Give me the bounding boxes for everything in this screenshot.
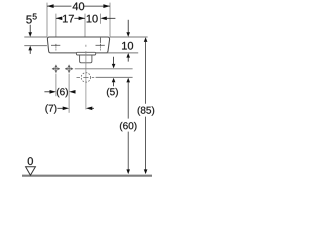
dimension 10 (right) up arrow xyxy=(126,53,130,62)
fixing hole extension line right xyxy=(68,74,70,113)
tap hole left cross xyxy=(51,44,60,51)
extension line left (x=47) xyxy=(46,3,48,37)
dimension (60) line xyxy=(126,78,130,174)
fixing marker right xyxy=(65,65,73,73)
dimension (6) arrows xyxy=(44,90,75,94)
drain centerline xyxy=(85,51,87,109)
extension line drain centre (x=85) xyxy=(84,14,86,44)
dimension (7) arrows xyxy=(57,106,94,110)
dimension 40 line xyxy=(47,4,110,8)
dimension (5) up arrow xyxy=(112,78,116,86)
wire: rim top right leader xyxy=(110,36,148,38)
dimension (7) label xyxy=(45,104,56,113)
dimension 5.5 down arrow xyxy=(28,25,32,37)
dimension 17 label xyxy=(63,15,74,23)
extension line tap hole left (x=55.9) xyxy=(55,14,57,44)
trap circle crosshair dashes xyxy=(77,76,95,78)
fixing hole extension line left xyxy=(55,74,57,97)
trap circle xyxy=(81,73,90,82)
datum 0 label xyxy=(28,157,33,165)
wire: basin bottom right leader xyxy=(107,52,139,54)
dimension 5.5 label xyxy=(26,14,36,24)
wire: left leader tap-hole height xyxy=(24,45,47,47)
dimension 10 (right) label xyxy=(122,42,133,50)
drain flange xyxy=(76,52,95,55)
fixing marker left xyxy=(52,65,60,73)
extension line tap hole right (x=100.4) xyxy=(99,14,101,24)
dimension 10 outside arrow xyxy=(100,16,115,20)
dimension (85) label xyxy=(138,106,155,115)
ground line xyxy=(22,175,152,177)
extension line right (x=110) xyxy=(109,3,111,37)
dimension (85) line xyxy=(144,37,148,174)
tap hole right cross xyxy=(96,38,105,51)
dimension (60) label xyxy=(120,122,137,131)
dimension 40 label xyxy=(73,2,85,10)
dimension 10 label (top) xyxy=(87,15,98,23)
line A fixing height leader xyxy=(75,68,133,70)
dimension (6) label xyxy=(57,88,68,97)
dimension (5) down arrow xyxy=(112,57,116,69)
drain tailpiece box xyxy=(80,55,92,63)
wire: left leader rim top xyxy=(24,36,47,38)
dimension 17 line xyxy=(56,16,85,20)
dimension 5.5 up arrow xyxy=(28,46,32,54)
dimension 10 (right) down arrow xyxy=(126,20,130,37)
basin outline xyxy=(47,37,109,53)
line B trap centre leader xyxy=(96,76,133,78)
dimension (5) label xyxy=(107,88,118,97)
drain centerline upper dash xyxy=(85,45,87,47)
datum triangle xyxy=(26,167,36,175)
